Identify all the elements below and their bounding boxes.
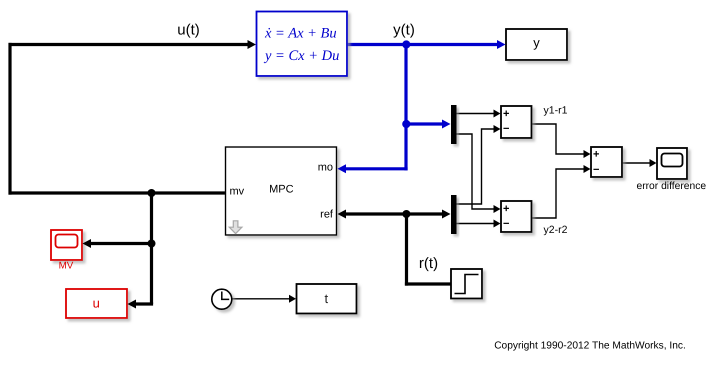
step block r(t) source — [451, 269, 482, 299]
svg-text:y1-r1: y1-r1 — [544, 104, 568, 116]
arrowhead into sum3 plus — [584, 150, 591, 158]
wire: blue to demux1 — [406, 122, 443, 125]
demux Demux2 — [451, 195, 457, 234]
junction dot at MV branch — [148, 240, 156, 248]
wire: branch to MV scope — [91, 242, 153, 245]
arrowhead into sum3 minus — [584, 165, 591, 173]
state-space block U1 — [257, 12, 348, 77]
wire: branch vertical to MV and u — [150, 191, 153, 304]
wire: sum2 output to sum3 minus — [532, 169, 584, 218]
wire: blue vertical — [404, 43, 407, 170]
arrowhead into y block (blue) — [497, 40, 506, 49]
MPC controller block — [226, 147, 337, 235]
svg-text:+: + — [593, 149, 599, 161]
svg-text:−: − — [593, 164, 599, 176]
wire: demux1 out2 to sum2 plus — [457, 134, 494, 209]
arrowhead into sum1 plus — [494, 110, 501, 118]
arrowhead into sum2 plus — [494, 205, 501, 213]
svg-text:MPC: MPC — [269, 184, 294, 196]
junction dot on mv wire — [148, 189, 156, 197]
arrowhead into sum1 minus — [494, 125, 501, 133]
svg-text:u: u — [93, 295, 100, 310]
svg-text:+: + — [503, 203, 509, 215]
wire: feedback left vertical — [8, 43, 11, 195]
svg-text:−: − — [503, 218, 509, 230]
svg-text:r(t): r(t) — [419, 255, 438, 272]
arrowhead into u block (left-pointing) — [128, 300, 137, 309]
svg-text:−: − — [503, 123, 509, 135]
wire: blue y(t) horizontal — [347, 43, 498, 46]
demux Demux1 — [451, 105, 457, 144]
wire: u(t) feedback horizontal top — [9, 43, 250, 46]
arrowhead into scope — [650, 159, 657, 167]
svg-text:u(t): u(t) — [177, 21, 200, 38]
arrowhead into demux2 — [442, 210, 451, 219]
arrowhead into t block — [289, 295, 296, 303]
arrowhead into MV scope (left-pointing) — [83, 239, 92, 248]
wire: branch to u block — [136, 302, 153, 305]
svg-text:y2-r2: y2-r2 — [544, 224, 568, 236]
wire: demux2 out2 to sum2 minus — [457, 223, 494, 225]
wire: demux2 out1 to sum1 minus — [457, 129, 494, 204]
wire: r(t) to MPC ref — [346, 212, 408, 215]
svg-text:y(t): y(t) — [393, 21, 415, 38]
wire: r(t) vertical — [405, 212, 408, 285]
wire: mv output horizontal — [9, 191, 227, 194]
sum block Sum1 — [501, 106, 532, 138]
svg-text:t: t — [324, 291, 328, 306]
arrowhead into state-space input — [248, 40, 257, 49]
arrowhead into MPC mo (blue, left-pointing) — [338, 164, 347, 173]
svg-text:ẋ = Ax + Bu: ẋ = Ax + Bu — [264, 25, 337, 41]
scope error difference — [636, 148, 706, 192]
junction dot on blue vertical — [402, 120, 410, 128]
wire: clock to t block — [232, 298, 290, 300]
svg-text:y: y — [533, 35, 540, 50]
svg-text:mo: mo — [318, 162, 333, 174]
wire: demux1 out1 to sum1 plus — [457, 113, 494, 115]
y output block — [506, 29, 567, 60]
svg-text:Copyright 1990-2012 The MathWo: Copyright 1990-2012 The MathWorks, Inc. — [494, 341, 686, 352]
u block (red) — [66, 289, 127, 318]
arrowhead into demux1 (blue) — [442, 120, 451, 129]
wire: r(t) to demux2 — [405, 212, 443, 215]
svg-text:y = Cx + Du: y = Cx + Du — [263, 48, 339, 64]
wire: blue to MPC mo — [346, 167, 408, 170]
svg-text:MV: MV — [59, 261, 74, 272]
sum block Sum3 — [591, 147, 622, 177]
sum block Sum2 — [501, 201, 532, 232]
MPC gray down-arrow badge — [229, 221, 242, 234]
junction dot on r(t) wire — [402, 210, 410, 218]
svg-text:ref: ref — [320, 208, 334, 220]
junction dot on y(t) wire (blue) — [402, 40, 410, 48]
arrowhead into MPC ref (left-pointing) — [338, 210, 347, 219]
svg-text:error difference: error difference — [636, 181, 706, 192]
MV scope block (red) — [51, 230, 82, 272]
t block — [297, 284, 357, 314]
wire: sum3 output to scope — [622, 162, 650, 164]
svg-text:+: + — [503, 108, 509, 120]
wire: step output horizontal — [405, 282, 451, 285]
svg-text:mv: mv — [230, 185, 245, 197]
clock block — [212, 289, 232, 309]
wire: sum1 output to sum3 plus — [532, 124, 584, 154]
arrowhead into sum2 minus — [494, 220, 501, 228]
